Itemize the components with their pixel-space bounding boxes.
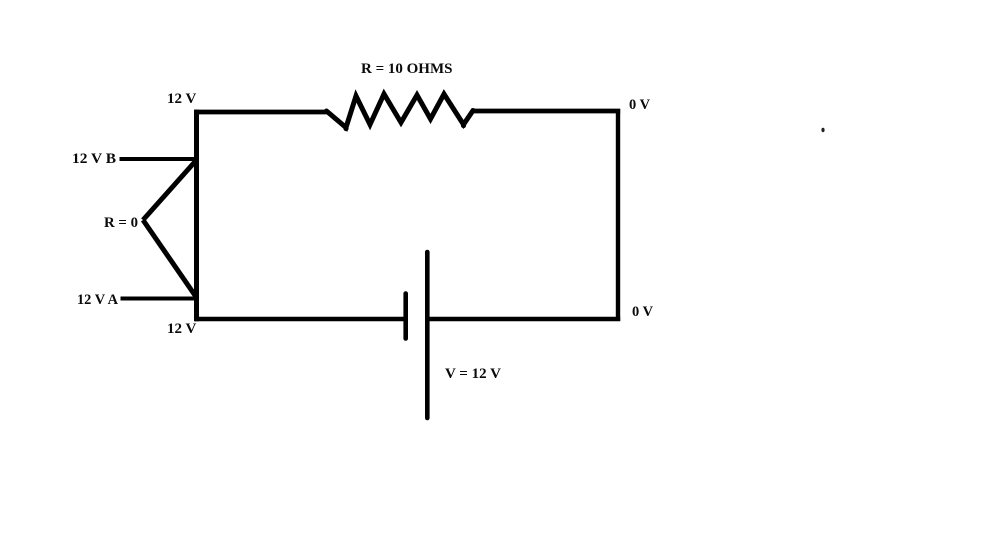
svg-text:V = 12 V: V = 12 V [445, 366, 501, 382]
wire: left edge [194, 110, 199, 322]
svg-text:12 V: 12 V [167, 91, 196, 107]
svg-text:R = 10 OHMS: R = 10 OHMS [361, 61, 452, 77]
wire R=0 lower diagonal (vertex to node A) [143, 220, 197, 298]
svg-text:0 V: 0 V [629, 97, 650, 113]
svg-text:12 V B: 12 V B [72, 151, 116, 167]
resistor lead blob (left valley) [343, 126, 348, 131]
resistor lead blob (right valley) [461, 123, 466, 128]
wire: top edge, right segment (from resistor to top-right corner) [471, 109, 620, 114]
svg-text:12 V: 12 V [167, 321, 196, 337]
battery V1 long plate (positive) [425, 252, 430, 418]
svg-text:R = 0: R = 0 [104, 215, 138, 231]
wire: bottom edge, right segment (battery to bottom-right corner) [427, 317, 620, 322]
svg-text:12 V A: 12 V A [77, 292, 118, 308]
resistor R (zigzag) [327, 94, 474, 128]
stray dot artifact [821, 128, 824, 132]
battery V1 short plate (negative) [403, 294, 408, 339]
wire: stub B (terminal B to left edge) [120, 157, 200, 161]
svg-text:0 V: 0 V [632, 304, 653, 320]
wire: top edge, left segment (from top-left corner to resistor) [194, 110, 327, 115]
wire R=0 upper diagonal (node B to vertex) [143, 160, 197, 220]
wire: stub A (terminal A to left edge) [121, 297, 200, 301]
wire: bottom edge, left segment (bottom-left corner to battery) [194, 317, 405, 322]
wire: right edge [616, 109, 620, 321]
